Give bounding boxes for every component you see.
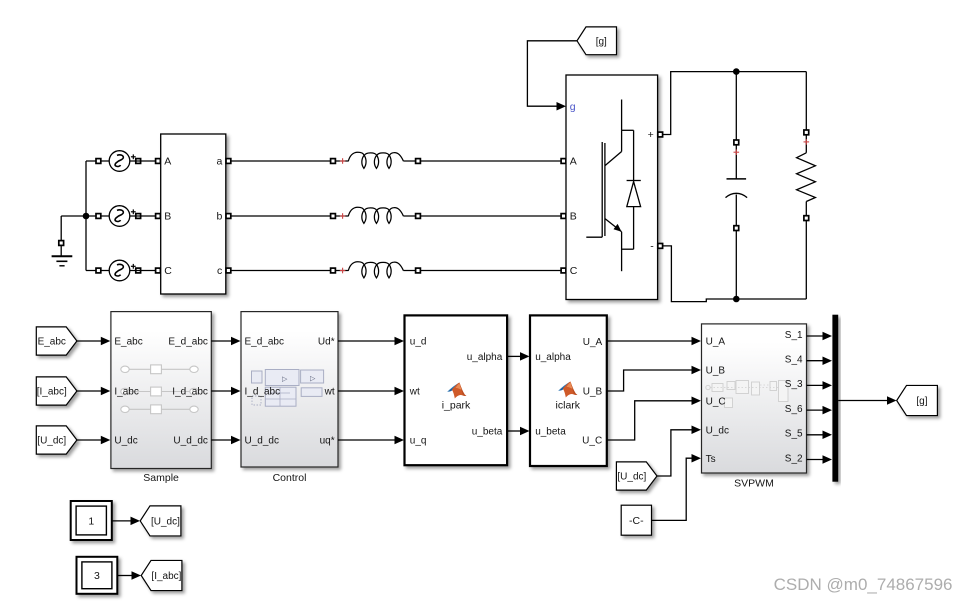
svg-text:Ts: Ts <box>706 454 716 465</box>
svg-text:-C-: -C- <box>629 515 644 527</box>
svg-text:▷: ▷ <box>310 376 316 383</box>
svg-text:U_d_dc: U_d_dc <box>173 436 207 447</box>
svg-text:U_d_dc: U_d_dc <box>245 436 279 447</box>
svg-text:U_dc: U_dc <box>114 436 137 447</box>
svg-text:SVPWM: SVPWM <box>734 478 774 490</box>
svg-text:I_d_abc: I_d_abc <box>245 387 281 398</box>
svg-text:E_abc: E_abc <box>38 337 66 348</box>
svg-text:E_d_abc: E_d_abc <box>168 337 207 348</box>
svg-text:U_A: U_A <box>706 337 726 348</box>
svg-text:u_alpha: u_alpha <box>535 352 571 363</box>
svg-text:U_B: U_B <box>583 387 603 398</box>
svg-text:I_abc: I_abc <box>114 387 138 398</box>
svg-text:u_q: u_q <box>410 436 427 447</box>
svg-text:E_abc: E_abc <box>114 337 142 348</box>
svg-text:C: C <box>570 265 578 277</box>
svg-text:[g]: [g] <box>916 396 927 407</box>
svg-text:S_4: S_4 <box>785 355 803 366</box>
svg-text:a: a <box>216 156 222 168</box>
svg-text:I_d_abc: I_d_abc <box>172 387 208 398</box>
svg-text:▷: ▷ <box>282 376 288 383</box>
svg-text:S_5: S_5 <box>785 429 803 440</box>
svg-text:g: g <box>570 101 576 113</box>
svg-text:u_beta: u_beta <box>535 427 566 438</box>
svg-text:wt: wt <box>324 387 335 398</box>
svg-text:u_d: u_d <box>410 337 427 348</box>
svg-text:uq*: uq* <box>320 436 335 447</box>
svg-text:U_C: U_C <box>582 436 602 447</box>
svg-text:S_2: S_2 <box>785 453 803 464</box>
svg-text:U_A: U_A <box>583 337 603 348</box>
svg-text:[I_abc]: [I_abc] <box>37 387 67 398</box>
svg-text:C: C <box>164 265 172 277</box>
svg-text:S_1: S_1 <box>785 330 803 341</box>
svg-text:[U_dc]: [U_dc] <box>151 517 180 528</box>
svg-text:i_park: i_park <box>442 400 471 412</box>
svg-text:Control: Control <box>273 472 307 484</box>
svg-text:A: A <box>570 156 577 168</box>
svg-text:Ud*: Ud* <box>318 337 335 348</box>
svg-text:U_C: U_C <box>706 396 726 407</box>
svg-text:+: + <box>648 129 654 141</box>
svg-text:wt: wt <box>409 387 420 398</box>
svg-text:[U_dc]: [U_dc] <box>617 472 646 483</box>
svg-text:1: 1 <box>88 515 94 527</box>
svg-text:B: B <box>570 211 577 223</box>
svg-text:c: c <box>217 265 222 277</box>
svg-text:U_dc: U_dc <box>706 425 729 436</box>
svg-text:A: A <box>164 156 171 168</box>
svg-text:S_3: S_3 <box>785 379 803 390</box>
svg-text:CSDN @m0_74867596: CSDN @m0_74867596 <box>774 575 953 594</box>
svg-text:u_beta: u_beta <box>472 427 503 438</box>
svg-text:[I_abc]: [I_abc] <box>151 571 181 582</box>
svg-text:3: 3 <box>94 570 100 582</box>
svg-text:-: - <box>650 241 654 253</box>
svg-text:[g]: [g] <box>596 36 607 47</box>
svg-text:u_alpha: u_alpha <box>467 352 503 363</box>
svg-text:Sample: Sample <box>143 472 179 484</box>
svg-text:U_B: U_B <box>706 366 726 377</box>
svg-text:iclark: iclark <box>556 400 581 412</box>
svg-text:b: b <box>216 211 222 223</box>
svg-text:[U_dc]: [U_dc] <box>37 436 66 447</box>
svg-text:S_6: S_6 <box>785 404 803 415</box>
svg-text:B: B <box>164 211 171 223</box>
svg-text:E_d_abc: E_d_abc <box>245 337 284 348</box>
